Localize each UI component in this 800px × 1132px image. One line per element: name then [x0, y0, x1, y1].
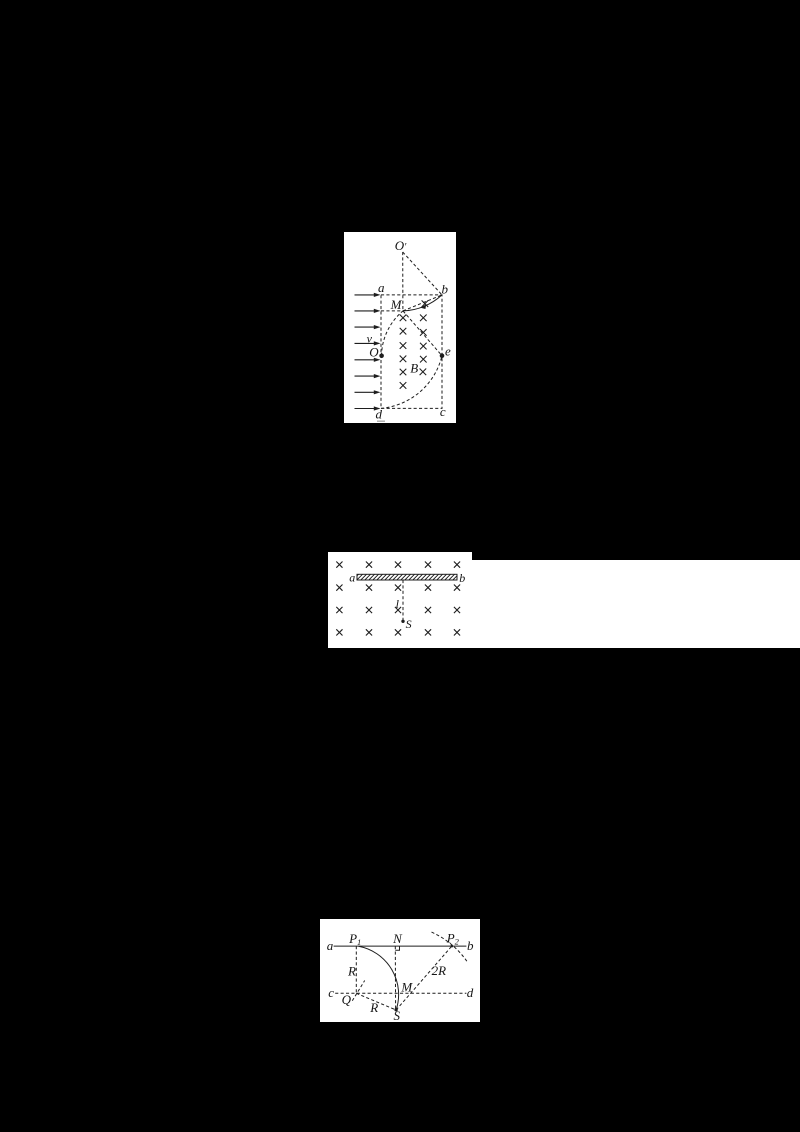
label P2 — [446, 931, 460, 947]
right angle mark at N — [395, 946, 399, 950]
node S dot panel3 — [394, 1008, 397, 1011]
label S7 panel3 — [394, 1008, 401, 1023]
label l distance — [396, 597, 400, 611]
label e panel1 — [445, 343, 451, 358]
arc P1-S solid trajectory — [359, 946, 399, 1010]
node S dot — [401, 620, 404, 623]
label c panel1 — [440, 404, 446, 419]
arc d-e dashed trajectory — [381, 356, 442, 409]
field cross B11 — [420, 369, 427, 376]
field cross F7 — [366, 585, 372, 591]
wire rod-S dashed drop line — [402, 580, 404, 620]
field cross F15 — [454, 607, 460, 613]
field cross B2 — [400, 315, 407, 322]
svg-text:d: d — [467, 985, 474, 1000]
svg-text:M: M — [390, 297, 403, 312]
svg-text:c: c — [440, 404, 446, 419]
arc through P2 dashed centered S — [432, 932, 468, 962]
field cross B3 — [420, 315, 427, 322]
svg-text:a: a — [378, 280, 385, 295]
svg-text:a: a — [349, 570, 355, 584]
panel 1 white background — [344, 232, 456, 423]
wire cd dashed bottom line — [335, 992, 466, 994]
label b panel1 — [442, 282, 449, 297]
panel 2 white background (right strip) — [472, 560, 800, 648]
arc O-M dashed trajectory centered at e — [382, 311, 404, 356]
label Q5 panel3 — [342, 992, 352, 1007]
wire ab solid top line — [334, 945, 467, 947]
panel 2 white background (diagram box) — [328, 552, 472, 648]
field cross B7 — [420, 343, 427, 350]
wire M-b dashed chord — [403, 295, 442, 311]
svg-text:2R: 2R — [432, 963, 447, 978]
field cross B9 — [420, 356, 427, 363]
svg-text:a: a — [327, 938, 334, 953]
wire O'-b dashed radius — [403, 252, 442, 295]
svg-text:P2: P2 — [446, 931, 460, 947]
svg-text:S: S — [394, 1008, 401, 1023]
field cross B10 — [400, 369, 407, 376]
wire M-e dashed line — [403, 311, 442, 356]
dashed rectangle abcd field boundary — [381, 295, 442, 409]
svg-text:M: M — [400, 980, 413, 995]
svg-text:b: b — [467, 938, 474, 953]
node P2 dot — [451, 945, 454, 948]
svg-text:B: B — [410, 360, 418, 375]
hatched rod ab — [357, 574, 457, 580]
label S — [406, 617, 412, 631]
field cross B5 — [420, 329, 427, 336]
label v panel1 — [367, 331, 373, 345]
svg-text:P1: P1 — [348, 931, 361, 947]
field cross B6 — [400, 342, 407, 349]
field cross F8 — [395, 585, 401, 591]
svg-text:b: b — [442, 282, 449, 297]
node e exit point dot — [440, 353, 445, 358]
wire S-P2 dashed radius 2R — [396, 946, 452, 1010]
velocity arrow 8 — [355, 406, 381, 410]
panel 3 white background — [320, 919, 480, 1022]
field cross F13 — [395, 607, 401, 613]
svg-text:e: e — [445, 343, 451, 358]
velocity arrow 7 — [355, 390, 381, 394]
tangent mark through Q dashed — [352, 981, 364, 1001]
label N4 panel3 — [392, 931, 403, 946]
velocity arrow 1 — [355, 293, 381, 297]
field cross F12 — [366, 607, 372, 613]
field cross F20 — [454, 629, 460, 635]
label b1 panel3 — [467, 938, 474, 953]
velocity arrow 3 — [355, 325, 381, 329]
svg-text:R: R — [347, 963, 356, 978]
label O panel1 — [369, 345, 379, 360]
label d3 panel3 — [467, 985, 474, 1000]
label a rod left — [349, 570, 355, 584]
field cross B8 — [400, 356, 407, 363]
field cross F1 — [336, 562, 342, 568]
field cross F3 — [395, 562, 401, 568]
label M6 panel3 — [400, 980, 413, 995]
svg-text:c: c — [328, 985, 334, 1000]
svg-text:R: R — [369, 1000, 378, 1015]
label P1 — [348, 931, 361, 947]
field cross F14 — [425, 607, 431, 613]
wire O'-M vertical dashed — [402, 252, 404, 311]
wire arrow2-M dashed extension — [381, 310, 403, 312]
field cross F11 — [336, 607, 342, 613]
field cross B4 — [400, 328, 407, 335]
faint scan mark below d — [377, 420, 385, 422]
field cross F2 — [366, 562, 372, 568]
svg-text:S: S — [406, 617, 412, 631]
field cross F6 — [336, 585, 342, 591]
svg-text:O′: O′ — [395, 238, 407, 253]
label a0 panel3 — [327, 938, 334, 953]
wire Q-S dashed radius — [356, 993, 396, 1010]
label b rod right — [459, 571, 465, 585]
svg-text:b: b — [459, 571, 465, 585]
velocity arrow 5 — [355, 358, 381, 362]
field cross F4 — [425, 562, 431, 568]
velocity arrow 2 — [355, 309, 381, 313]
label 2R — [432, 963, 447, 978]
wire N-S vertical dashed — [394, 946, 396, 1009]
svg-text:N: N — [392, 931, 403, 946]
node O' apex point — [395, 238, 407, 253]
field cross F5 — [454, 562, 460, 568]
arc M-b solid trajectory — [403, 295, 442, 311]
node O entry point dot — [379, 354, 384, 359]
svg-text:d: d — [375, 407, 382, 422]
field cross B12 — [400, 382, 407, 389]
label c2 panel3 — [328, 985, 334, 1000]
label B panel1 — [410, 360, 418, 375]
field cross F19 — [425, 629, 431, 635]
field cross F17 — [366, 629, 372, 635]
wire P1-Q vertical dashed — [355, 946, 357, 993]
label a panel1 — [378, 280, 385, 295]
field cross F9 — [425, 585, 431, 591]
label d panel1 — [375, 407, 382, 422]
svg-text:Q: Q — [342, 992, 352, 1007]
label M panel1 — [390, 297, 403, 312]
field cross F10 — [454, 585, 460, 591]
velocity arrow 4 — [355, 341, 381, 345]
svg-text:v: v — [367, 331, 373, 345]
svg-text:O: O — [369, 345, 379, 360]
field cross B1 — [422, 300, 429, 307]
velocity arrow 6 — [355, 374, 381, 378]
field cross F18 — [395, 629, 401, 635]
field cross F16 — [336, 629, 342, 635]
label R9 panel3 — [369, 1000, 378, 1015]
label R8 panel3 — [347, 963, 356, 978]
